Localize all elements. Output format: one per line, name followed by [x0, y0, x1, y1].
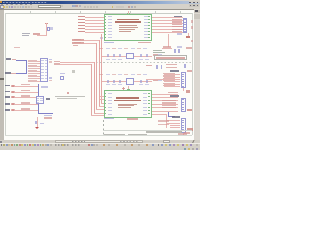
U1 right pins [148, 16, 150, 17]
J2 gnd wire [182, 88, 185, 91]
title block red label [184, 132, 190, 134]
capacitor C9 [113, 80, 114, 83]
capacitor C15 [184, 64, 186, 68]
long wire to J2 [146, 78, 180, 81]
inductor L2 [126, 78, 134, 84]
label F2 blue [158, 80, 162, 81]
scrollbar thumb [194, 14, 200, 19]
sheet symbol U1 [104, 14, 152, 41]
bundle turn-ins to U3 [101, 102, 104, 105]
capacitor C4 [140, 54, 141, 57]
J6 wires [166, 119, 180, 122]
ref J5 [5, 72, 11, 74]
wire F1 [102, 55, 152, 58]
net label pre-J4 [14, 47, 20, 48]
capacitor C5 [146, 54, 147, 57]
title text [3, 2, 47, 3]
net label CLK [33, 33, 40, 35]
ref J4 [6, 58, 12, 60]
ref P14 [5, 96, 10, 98]
label VCC J3 [187, 109, 193, 112]
wire A2 [85, 19, 104, 22]
capacitor C14 [161, 65, 163, 69]
combobox [38, 5, 62, 8]
note box NB1 [154, 55, 187, 60]
J3 label cluster [162, 100, 176, 101]
net label A5 [78, 28, 85, 30]
ref P10 [5, 85, 10, 87]
label cluster M2 [166, 64, 177, 65]
net labels J1 cluster [172, 19, 182, 20]
net label A3 [78, 22, 85, 24]
sheet border right [191, 13, 194, 135]
title bar [0, 1, 200, 4]
U1 left blue label [100, 37, 103, 39]
U1 left pins [104, 16, 106, 17]
capacitor C8 [107, 80, 108, 83]
label C16 [60, 73, 65, 74]
capacitor C17 [35, 121, 37, 125]
blue wire W2 [38, 112, 53, 115]
capacitor C11 [140, 80, 141, 83]
label X4 [21, 108, 30, 110]
J2 wires [164, 73, 180, 76]
port P2 [72, 39, 84, 42]
wire V-a [90, 64, 93, 115]
power port GND2 [122, 87, 125, 90]
net label A2 [78, 19, 85, 21]
pin mark [72, 70, 75, 73]
MDI child buttons row [189, 4, 200, 6]
capacitor C12 [146, 80, 147, 83]
inductor L1 [126, 53, 134, 59]
label q1 [44, 117, 52, 119]
wire V-b [93, 62, 96, 113]
connector X2 [11, 91, 15, 93]
U1 title line2 [115, 21, 141, 22]
capacitor C10 [119, 80, 120, 83]
U3 left pin names [108, 93, 112, 94]
filter block F2 [99, 74, 103, 75]
port P2 text [74, 39, 81, 40]
wire U1 top [127, 11, 130, 13]
sheet border top [5, 12, 192, 15]
ref P11 [5, 91, 10, 93]
wire V-d [98, 40, 101, 106]
blue wire W1 [37, 84, 40, 114]
connector X4 [11, 109, 15, 111]
junction dot [67, 92, 69, 94]
IC U2 [40, 58, 48, 82]
note texts N1 [153, 50, 162, 51]
right edge marks [191, 20, 193, 23]
power port P1 cross [45, 22, 48, 25]
wire U3 top [127, 86, 130, 89]
U3 right wires [152, 93, 178, 96]
label CB2 [186, 47, 192, 49]
label P3 [73, 45, 78, 46]
U3 title line1 [116, 97, 139, 98]
capacitor C13 [156, 65, 158, 69]
wires U1 right to connector J1 [152, 16, 183, 19]
left margin mark [0, 78, 4, 80]
ref text J6 [172, 116, 180, 118]
label X2 [21, 90, 30, 92]
wire VCC vertical [45, 23, 48, 35]
wire V-c [95, 43, 98, 110]
text note T2 [22, 35, 29, 36]
connector J3 [181, 98, 186, 112]
U1 pin names [108, 16, 112, 17]
F1 labels [99, 48, 103, 49]
capacitor sub-labels F1 [106, 58, 109, 61]
capacitor C2 [113, 54, 114, 57]
ref U4 [46, 98, 51, 100]
wire net stub [37, 34, 47, 37]
U3 right pins [148, 93, 150, 94]
wire A6 [85, 31, 104, 34]
wire A1 [85, 16, 104, 19]
J1 blue label [177, 33, 182, 35]
connector J6 [181, 118, 186, 132]
wire F2 [102, 80, 152, 83]
blue label W1 [41, 86, 48, 87]
ref text J1 [174, 16, 182, 18]
label J5 [11, 73, 15, 75]
sheet symbol U3 [104, 90, 152, 118]
divider dashed [96, 61, 192, 64]
resistor R1 [47, 27, 50, 32]
label X3 [21, 102, 30, 104]
title block [103, 129, 192, 132]
port P3 text [74, 42, 81, 43]
window outer edge [0, 0, 200, 1]
label X5 [21, 95, 30, 97]
ruler ticks top [29, 11, 32, 13]
wire X5 [15, 96, 36, 99]
toolbar icons mid [72, 5, 74, 7]
wire P3 [84, 42, 97, 45]
capacitor sub-labels F2 [106, 83, 109, 86]
bottom icon row [0, 143, 200, 148]
wire Q [36, 117, 39, 127]
net label A1 [78, 16, 85, 18]
net label A4 [78, 25, 85, 27]
U3 left pins [104, 93, 106, 94]
U2 right stubs [49, 59, 53, 60]
power port GND3 [186, 90, 191, 93]
connector X3 [11, 103, 15, 105]
label Q [40, 123, 44, 125]
canvas margin + page [0, 9, 194, 140]
wire J6 gnd [182, 133, 185, 136]
U1 title line1 [117, 19, 139, 20]
text note T1 [22, 33, 30, 34]
ref P12 [5, 103, 10, 105]
title block text row2 [104, 134, 125, 135]
wire X4 [15, 109, 38, 112]
capacitor C16 [60, 76, 64, 80]
blue label W2 [44, 115, 52, 117]
label J2 bottom [168, 92, 178, 93]
J6 label cluster [158, 120, 169, 122]
wire J1 gnd [187, 33, 190, 37]
wire P2 [84, 39, 99, 42]
bottom row 3 [0, 148, 200, 151]
connector J2 [181, 72, 186, 88]
label F1 blue [158, 54, 162, 55]
wire H2 [54, 63, 60, 65]
label J4 [12, 59, 16, 61]
net label M3 [187, 70, 192, 72]
IC U4 [36, 96, 44, 104]
wire A5 [85, 28, 104, 31]
net label F2 out [153, 80, 158, 81]
label CB [177, 46, 182, 47]
vertical scrollbar [194, 9, 200, 140]
U1 bottom red label [138, 42, 151, 43]
U3 top pin [127, 89, 130, 90]
capacitor C7 [178, 49, 180, 53]
wire H1 [54, 61, 60, 63]
U1 top pin [127, 13, 130, 14]
port P3 [72, 42, 84, 45]
wire J1 down [167, 34, 170, 47]
capacitor C1 [107, 54, 108, 57]
net label F1 out [153, 54, 158, 55]
U3 bottom red label [127, 118, 138, 119]
U3 text lines [118, 104, 137, 105]
menu row faint text [1, 4, 34, 5]
status field long [55, 140, 143, 143]
wire V-e [100, 34, 103, 103]
bus wire B2 [25, 60, 28, 74]
label J6 gnd [178, 133, 187, 134]
vertical dashed V1 [98, 64, 101, 120]
pencil diagonal [189, 140, 197, 144]
U3 title line2 [114, 100, 141, 101]
bus wire B1 [16, 59, 26, 62]
toolbar icons left [1, 6, 3, 8]
wire X1 [15, 85, 38, 88]
connector X5 [11, 96, 15, 98]
ref text J2 [170, 70, 179, 72]
wire X3 [15, 103, 38, 106]
small white box [163, 140, 170, 143]
sheet border left [4, 13, 7, 135]
net label M1 [146, 65, 152, 67]
ref text J3 [170, 95, 179, 97]
connector X1 [11, 85, 15, 87]
label VCC J6 [187, 128, 193, 131]
wire A4 [85, 25, 104, 28]
sheet border bottom [5, 134, 192, 137]
cluster CB right mid-top [163, 46, 171, 48]
U3 sheet file label [104, 118, 114, 119]
U3 right pin names [143, 93, 147, 94]
ref P13 [5, 109, 10, 111]
capacitor C3 [119, 54, 120, 57]
label R1 value [50, 27, 52, 30]
wire U3 last [152, 113, 166, 116]
power port GND1 [186, 36, 190, 38]
label X1 [21, 84, 30, 86]
bus wire B3 [16, 72, 26, 75]
vertical dashed V2 [102, 120, 105, 135]
wire J3 blue [167, 112, 170, 117]
bottom bar 1 [0, 140, 200, 143]
app icon [0, 1, 2, 3]
window buttons row1 [189, 1, 200, 4]
capacitor C6 [174, 49, 176, 53]
net label A6 [78, 31, 85, 33]
bus entry net rows [28, 60, 37, 62]
U1 text lines [119, 25, 137, 26]
J2 label cluster [163, 73, 175, 74]
U1 sheet file label [104, 42, 114, 43]
scrollbar up button [194, 10, 200, 14]
wire A3 [85, 22, 104, 25]
U2 pin texts [41, 60, 44, 61]
title block text row1 [146, 131, 182, 132]
short stubs U3 top pins [100, 95, 104, 98]
note text NT [55, 96, 85, 97]
wire X2 [15, 91, 38, 94]
connector J1 [183, 18, 187, 33]
ground GND4 [35, 127, 39, 129]
